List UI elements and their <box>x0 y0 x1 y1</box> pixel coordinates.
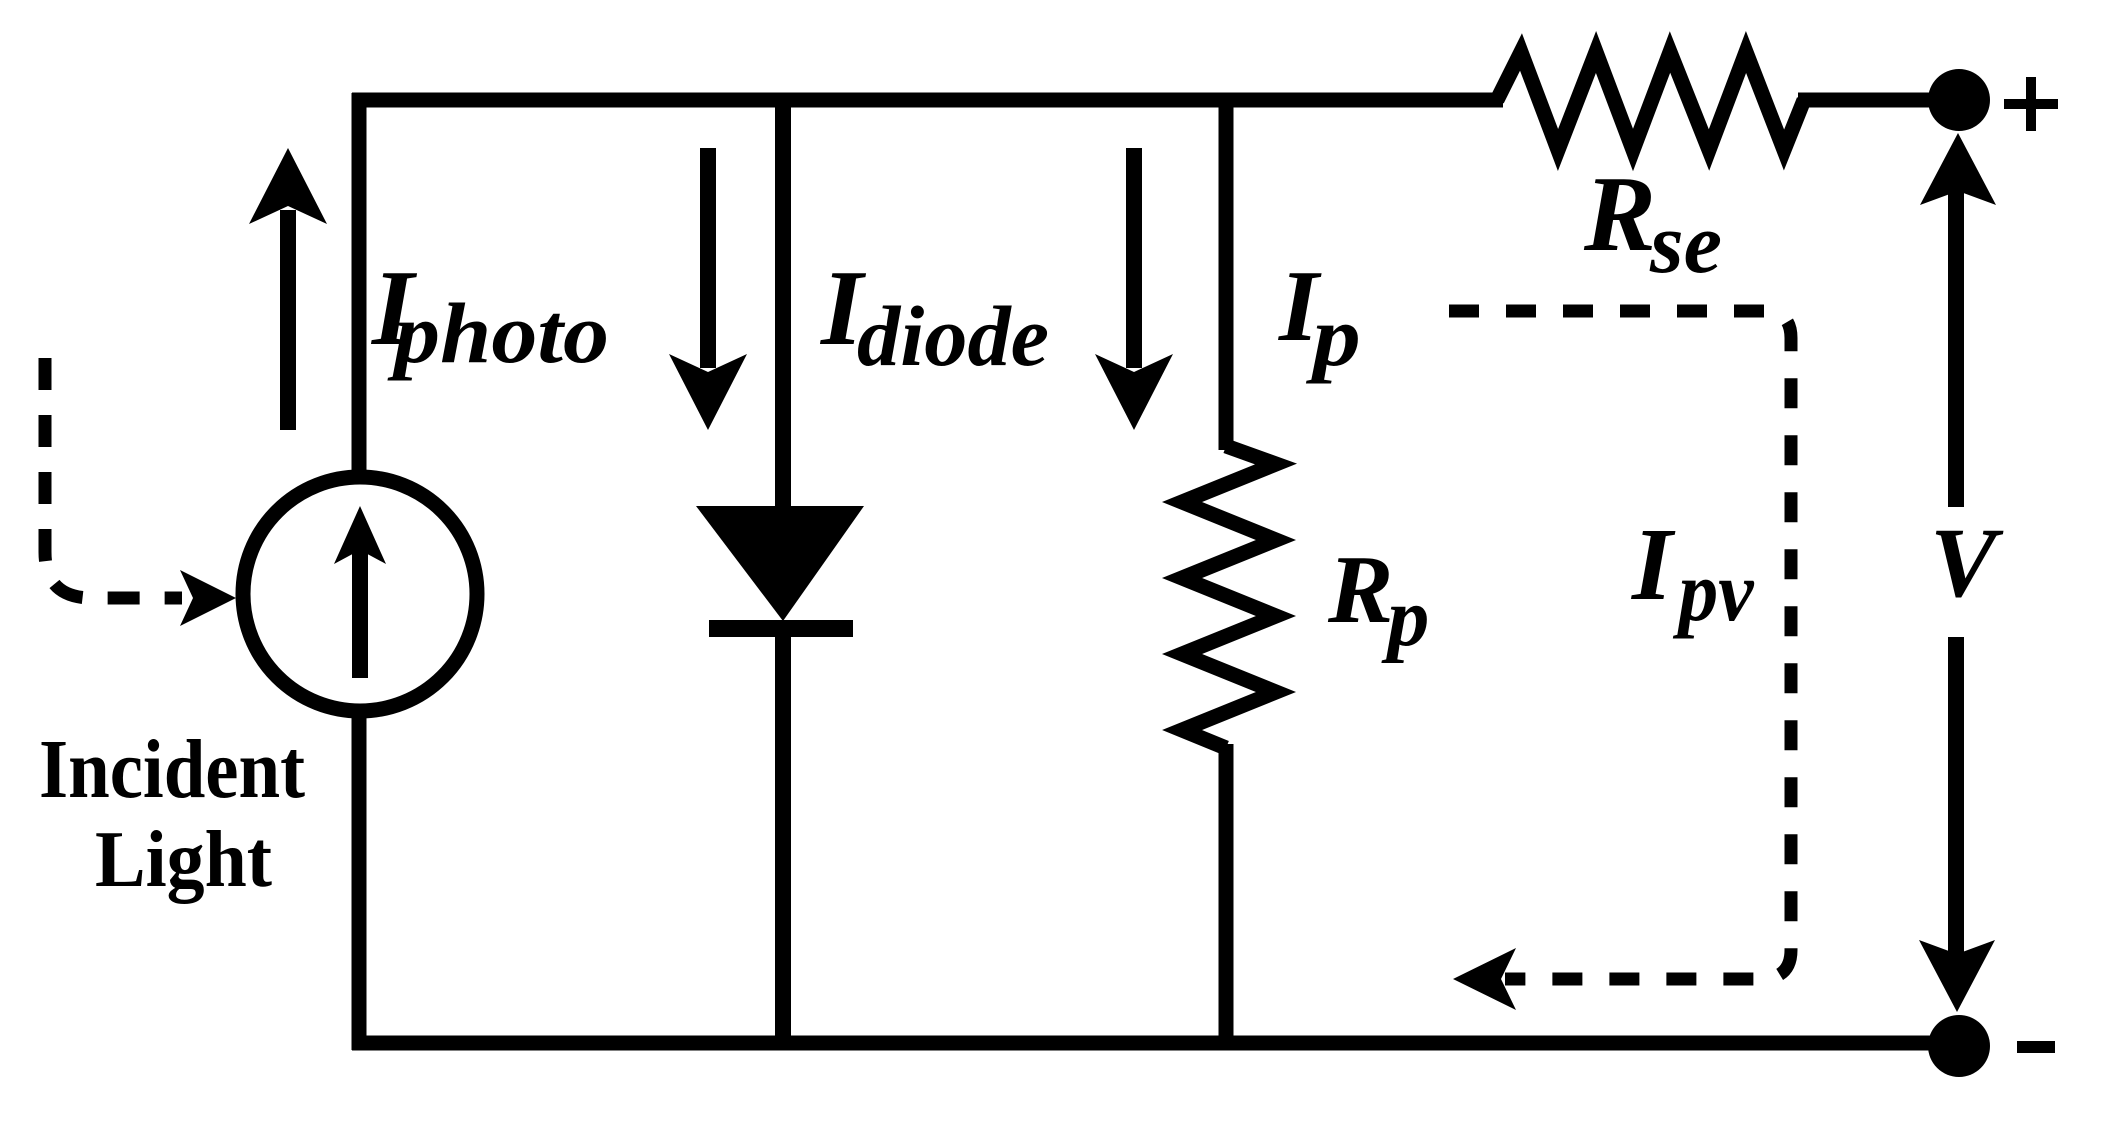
wire Rp branch top <box>1219 93 1234 450</box>
resistor Rp (shunt, vertical zigzag) <box>1182 446 1276 748</box>
arrow Idiode direction (down) <box>669 148 747 430</box>
node + terminal dot <box>1928 69 1990 131</box>
dashed arrow incident light <box>45 358 182 598</box>
dashed loop Ipv <box>1449 311 1791 979</box>
label - <box>2017 1041 2055 1053</box>
arrow Ip direction (down) <box>1095 148 1173 430</box>
svg-text:Rp: Rp <box>1327 536 1429 664</box>
label + <box>2004 77 2058 131</box>
arrow Iphoto direction (up) <box>249 148 327 430</box>
current source I_photo (circle) <box>243 477 477 711</box>
diode D1 triangle <box>696 506 864 621</box>
diode D1 cathode bar <box>709 620 853 637</box>
current source internal up arrow <box>334 506 386 678</box>
svg-text:Incident: Incident <box>39 723 305 816</box>
diode D1 cathode wire <box>775 634 791 1050</box>
svg-text:Ipv: Ipv <box>1630 507 1754 639</box>
svg-text:Light: Light <box>95 816 272 904</box>
wire left branch upper <box>352 93 367 472</box>
wire left branch lower <box>352 718 367 1050</box>
svg-text:Ip: Ip <box>1278 250 1361 384</box>
dashed loop Ipv arrowhead (left) <box>1453 948 1516 1010</box>
voltage arrow V lower (head down) <box>1919 637 1995 1012</box>
wire top bus <box>352 93 1503 108</box>
diode D1 anode wire <box>775 93 791 510</box>
wire bottom bus <box>352 1036 1940 1051</box>
svg-text:V: V <box>1930 507 2004 618</box>
svg-text:Idiode: Idiode <box>819 249 1049 384</box>
wire top-right (Rse to + terminal) <box>1798 93 1940 108</box>
resistor Rse (series, horizontal zigzag) <box>1497 52 1804 150</box>
voltage arrow V upper (head up) <box>1920 133 1996 507</box>
svg-text:Rse: Rse <box>1583 155 1722 291</box>
incident light arrowhead (right) <box>180 570 236 626</box>
svg-text:Iphoto: Iphoto <box>370 249 609 381</box>
wire Rp branch bottom <box>1219 744 1234 1050</box>
node - terminal dot <box>1928 1015 1990 1077</box>
